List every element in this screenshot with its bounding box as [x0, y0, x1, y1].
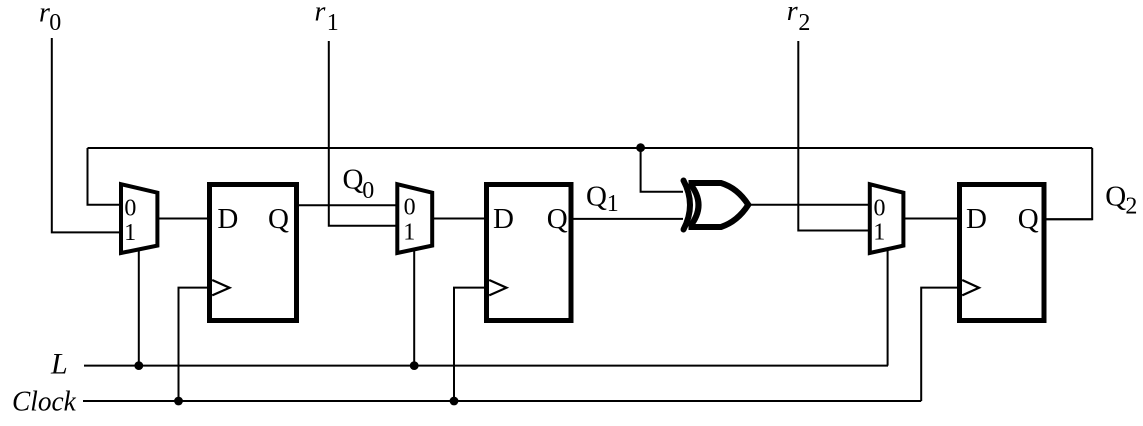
input label r2: [787, 0, 811, 36]
svg-text:0: 0: [362, 178, 374, 204]
wire mux U2 select to L line: [413, 250, 415, 366]
svg-text:1: 1: [403, 219, 415, 245]
wire L horizontal line: [84, 365, 888, 367]
wire feedback branch to XOR top input: [641, 148, 683, 192]
wire mux U1 select to L line: [138, 250, 140, 366]
net label Q0: [343, 163, 375, 204]
svg-text:Q: Q: [586, 181, 607, 213]
FF2 clock chevron: [489, 280, 506, 295]
wire FF3 Q output to feedback: [1044, 218, 1092, 220]
svg-text:0: 0: [874, 195, 886, 221]
net label Q2: [1105, 181, 1137, 220]
wire clock to FF3: [921, 288, 959, 401]
wire r2 vertical into mux U3 input 1: [798, 41, 870, 231]
svg-text:1: 1: [607, 191, 619, 217]
wire FF2 Q output to XOR bottom input: [572, 218, 683, 220]
wire clock to FF2: [454, 288, 486, 401]
wire mux U2 output to FF2 D: [433, 218, 485, 220]
svg-text:Q: Q: [1018, 203, 1039, 235]
svg-text:Q: Q: [343, 163, 364, 195]
svg-text:Q: Q: [268, 203, 289, 235]
multiplexer U3: [870, 184, 904, 253]
FF3 clock chevron: [962, 280, 979, 295]
svg-text:0: 0: [49, 10, 61, 36]
svg-text:2: 2: [1125, 194, 1137, 220]
net label Q1: [586, 181, 619, 218]
wire r0 vertical into mux U1 input 1: [52, 38, 121, 232]
multiplexer U1: [121, 184, 157, 253]
svg-text:1: 1: [124, 220, 136, 246]
svg-text:0: 0: [404, 195, 416, 221]
wire XOR output to mux U3 input 0: [748, 204, 870, 206]
flip-flop FF1: [210, 185, 297, 321]
svg-text:D: D: [493, 203, 514, 235]
svg-text:L: L: [50, 347, 68, 380]
XOR gate G1 body: [689, 183, 749, 227]
input label r0: [39, 0, 61, 36]
node junction Clock with FF2: [450, 397, 459, 406]
wire feedback right vertical from Q2: [1046, 148, 1092, 219]
node junction on feedback line: [636, 143, 645, 152]
XOR gate G1 input arc: [684, 181, 691, 230]
node junction L with U2 select: [410, 361, 419, 370]
flip-flop FF2: [487, 185, 572, 321]
svg-text:r: r: [787, 0, 798, 27]
wire feedback top horizontal: [88, 147, 1093, 149]
svg-text:r: r: [315, 0, 326, 28]
node junction L with U1 select: [134, 361, 143, 370]
wire r1 vertical into mux U2 input 1: [329, 41, 397, 226]
wire FF1 Q output to mux U2 input 0: [297, 204, 397, 206]
wire mux U3 output to FF3 D: [904, 218, 958, 220]
node junction Clock with FF1: [174, 397, 183, 406]
wire Clock horizontal line: [83, 400, 921, 402]
svg-text:1: 1: [327, 10, 339, 36]
FF1 clock chevron: [212, 280, 229, 295]
svg-text:D: D: [966, 203, 987, 235]
wire mux U1 output to FF1 D: [158, 218, 208, 220]
svg-text:Clock: Clock: [12, 387, 76, 418]
svg-text:0: 0: [124, 195, 136, 221]
wire mux U3 select to L line end: [887, 250, 889, 366]
multiplexer U2: [397, 184, 432, 253]
wire feedback left drop into mux U1 input 0: [88, 148, 122, 205]
svg-text:D: D: [217, 203, 238, 235]
flip-flop FF3: [960, 185, 1045, 321]
svg-text:Q: Q: [1105, 181, 1126, 213]
svg-text:1: 1: [873, 220, 885, 246]
input label r1: [315, 0, 339, 36]
wire clock to FF1: [179, 288, 210, 401]
svg-text:Q: Q: [547, 203, 568, 235]
svg-text:2: 2: [798, 10, 810, 36]
